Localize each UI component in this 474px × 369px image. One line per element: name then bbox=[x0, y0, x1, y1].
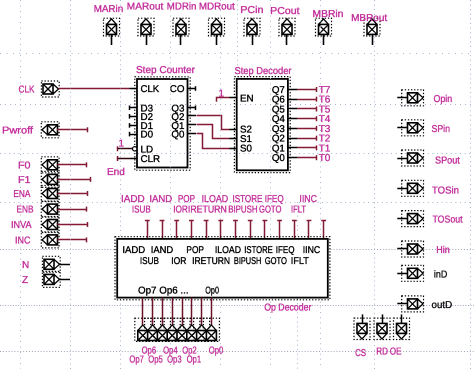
svg-text:Op5: Op5 bbox=[148, 354, 163, 365]
svg-text:ILOAD: ILOAD bbox=[202, 194, 229, 205]
pin CLK (input) bbox=[19, 81, 60, 97]
wire T2 bbox=[288, 134, 331, 145]
svg-text:SPin: SPin bbox=[432, 124, 451, 135]
svg-text:ISTORE: ISTORE bbox=[244, 245, 273, 256]
chip body Step Decoder bbox=[234, 77, 290, 173]
wire MBRout stub bbox=[372, 35, 374, 45]
page grid vertical x=220.5 bbox=[220, 0, 222, 369]
page grid vertical x=470.5 bbox=[470, 0, 472, 369]
svg-text:CS: CS bbox=[355, 348, 366, 359]
svg-text:IFLT: IFLT bbox=[291, 256, 309, 267]
svg-text:CLR: CLR bbox=[141, 154, 161, 165]
page grid horizontal y=351.5 bbox=[0, 351, 474, 353]
svg-text:Op7: Op7 bbox=[129, 354, 144, 365]
8 output wires below Op Decoder bbox=[143, 298, 212, 325]
wire INVA bbox=[58, 222, 88, 227]
svg-text:S0: S0 bbox=[240, 144, 253, 155]
wire T5 bbox=[288, 105, 331, 116]
pin INVA (output) bbox=[11, 217, 59, 233]
page grid vertical x=120.5 bbox=[120, 0, 122, 369]
pin MDRin bbox=[167, 2, 197, 45]
svg-text:CLK: CLK bbox=[141, 84, 160, 95]
pin Opin bbox=[397, 90, 452, 106]
13 input stub wires on top of Op Decoder bbox=[145, 220, 326, 239]
svg-text:IOR: IOR bbox=[171, 256, 186, 267]
svg-text:CO: CO bbox=[170, 84, 185, 95]
wire MARin stub bbox=[111, 35, 113, 45]
svg-text:ENB: ENB bbox=[17, 205, 34, 216]
svg-text:ISTORE: ISTORE bbox=[233, 194, 263, 205]
svg-text:Op3: Op3 bbox=[167, 354, 182, 365]
pin PCout bbox=[270, 6, 300, 45]
svg-text:IINC: IINC bbox=[303, 245, 321, 256]
wire INC bbox=[58, 237, 87, 242]
svg-text:1: 1 bbox=[119, 138, 125, 149]
svg-text:Z: Z bbox=[22, 275, 28, 286]
page grid vertical x=70.5 bbox=[70, 0, 72, 369]
svg-text:Op1: Op1 bbox=[187, 354, 202, 365]
pin ENB (output) bbox=[17, 201, 60, 217]
pin stubs D3 D2 D1 D0 with end ticks bbox=[130, 106, 138, 137]
svg-text:IADD: IADD bbox=[121, 194, 145, 205]
page grid horizontal y=53.5 bbox=[0, 53, 474, 55]
svg-text:Step Decoder: Step Decoder bbox=[235, 66, 293, 77]
pin stub Q3 with tick bbox=[188, 106, 196, 111]
svg-text:Op0: Op0 bbox=[205, 286, 219, 297]
wire MBRin stub bbox=[323, 35, 325, 45]
svg-text:Q0: Q0 bbox=[272, 153, 286, 164]
svg-text:inD: inD bbox=[434, 269, 447, 280]
wire T1 bbox=[288, 143, 331, 154]
wire PCout stub bbox=[286, 35, 288, 45]
pin MARin bbox=[94, 4, 124, 45]
wire F1 bbox=[58, 177, 91, 182]
page grid vertical x=320.5 bbox=[320, 0, 322, 369]
wire ENA bbox=[58, 191, 88, 196]
wire MDRout stub bbox=[216, 35, 218, 45]
svg-text:F0: F0 bbox=[18, 160, 31, 171]
page grid vertical x=20.5 bbox=[20, 0, 22, 369]
wire CLK to Step Counter bbox=[59, 88, 130, 90]
pin MDRout bbox=[199, 2, 235, 45]
pin OE bbox=[390, 314, 410, 357]
pin CS bbox=[354, 314, 370, 359]
svg-text:RD: RD bbox=[376, 347, 388, 358]
svg-text:BIPUSH: BIPUSH bbox=[234, 256, 262, 267]
page grid horizontal y=153.5 bbox=[0, 153, 474, 155]
page grid horizontal y=249.5 bbox=[0, 249, 474, 251]
svg-text:MARout: MARout bbox=[127, 2, 164, 13]
svg-text:Pwroff: Pwroff bbox=[2, 125, 33, 136]
page grid horizontal y=104.5 bbox=[0, 104, 474, 106]
wire MDRin stub bbox=[180, 35, 182, 45]
wire MARout stub bbox=[146, 35, 148, 45]
svg-text:IRETURN: IRETURN bbox=[192, 256, 230, 267]
svg-text:N: N bbox=[22, 260, 29, 271]
svg-text:MDRout: MDRout bbox=[199, 2, 235, 13]
chip body Step Counter bbox=[135, 77, 190, 170]
svg-text:IADD: IADD bbox=[122, 245, 145, 256]
wire Q1 to S1 bbox=[188, 124, 197, 126]
svg-text:D0: D0 bbox=[141, 130, 154, 141]
pin SPin bbox=[397, 120, 450, 136]
svg-text:Opin: Opin bbox=[434, 94, 453, 105]
page grid vertical x=374.5 bbox=[374, 0, 376, 369]
pin inD bbox=[397, 265, 447, 281]
svg-text:EN: EN bbox=[240, 93, 254, 104]
svg-text:IAND: IAND bbox=[151, 245, 173, 256]
wire ENB bbox=[58, 207, 87, 212]
wire Pwroff bbox=[57, 127, 88, 132]
pin outD bbox=[397, 296, 452, 312]
pin F1 (output) bbox=[18, 171, 59, 187]
svg-text:IINC: IINC bbox=[299, 194, 317, 205]
svg-text:IAND: IAND bbox=[149, 194, 172, 205]
svg-text:GOTO: GOTO bbox=[265, 256, 288, 267]
page grid horizontal y=202.5 bbox=[0, 202, 474, 204]
svg-text:BIPUSH: BIPUSH bbox=[228, 205, 257, 216]
svg-text:MBRout: MBRout bbox=[351, 13, 387, 24]
svg-text:ILOAD: ILOAD bbox=[215, 245, 241, 256]
svg-text:Op7 Op6 ...: Op7 Op6 ... bbox=[138, 286, 189, 297]
label row above decoder (lower) bbox=[132, 205, 306, 216]
svg-text:GOTO: GOTO bbox=[259, 205, 282, 216]
svg-text:Op Decoder: Op Decoder bbox=[264, 303, 312, 314]
pin Pwroff (output) bbox=[2, 122, 59, 138]
pin MBRin bbox=[313, 9, 344, 45]
chip body Op Decoder bbox=[115, 237, 330, 300]
wire Q2 to S2 bbox=[188, 115, 197, 117]
svg-text:Q0: Q0 bbox=[171, 130, 185, 141]
pin MARout bbox=[127, 2, 164, 45]
svg-text:IFEQ: IFEQ bbox=[276, 245, 295, 256]
selection boundary x=297 bbox=[297, 202, 299, 369]
svg-text:ISUB: ISUB bbox=[132, 205, 151, 216]
svg-text:POP: POP bbox=[186, 245, 204, 256]
pin PCin bbox=[240, 5, 263, 45]
svg-text:SPout: SPout bbox=[435, 156, 460, 167]
svg-text:Step Counter: Step Counter bbox=[136, 65, 196, 76]
svg-text:F1: F1 bbox=[18, 175, 31, 186]
svg-text:INVA: INVA bbox=[11, 220, 32, 231]
svg-text:IRETURN: IRETURN bbox=[188, 205, 227, 216]
svg-text:MDRin: MDRin bbox=[167, 2, 197, 13]
svg-text:IFEQ: IFEQ bbox=[265, 194, 284, 205]
svg-text:OE: OE bbox=[390, 347, 402, 358]
page grid vertical x=170.5 bbox=[170, 0, 172, 369]
wire T7 bbox=[288, 85, 331, 96]
svg-text:IOR: IOR bbox=[173, 205, 188, 216]
pin RD bbox=[374, 314, 390, 357]
pin MBRout bbox=[351, 13, 387, 45]
pin F0 (output) bbox=[18, 157, 59, 173]
svg-text:MARin: MARin bbox=[94, 4, 124, 15]
pin Op7..Op0 row bbox=[135, 318, 220, 341]
svg-text:IFLT: IFLT bbox=[291, 205, 306, 216]
page grid horizontal y=305.5 bbox=[0, 305, 474, 307]
page grid vertical x=270.5 bbox=[270, 0, 272, 369]
svg-text:PCout: PCout bbox=[270, 6, 300, 17]
pin TOSin bbox=[397, 180, 459, 196]
svg-text:End: End bbox=[107, 167, 125, 178]
wire F0 bbox=[58, 162, 87, 167]
label row above decoder (upper) bbox=[121, 194, 317, 205]
svg-text:outD: outD bbox=[432, 300, 453, 311]
pin ENA (output) bbox=[13, 186, 59, 202]
svg-text:PCin: PCin bbox=[240, 5, 263, 16]
selection boundary x=237 bbox=[237, 0, 239, 78]
wire PCin stub bbox=[252, 35, 254, 45]
pin SPout bbox=[397, 150, 460, 167]
wire T3 bbox=[288, 124, 331, 135]
pin Hin bbox=[397, 241, 450, 257]
svg-text:POP: POP bbox=[178, 194, 195, 205]
wire T6 bbox=[288, 95, 331, 106]
svg-text:ENA: ENA bbox=[13, 189, 30, 200]
svg-text:Hin: Hin bbox=[436, 245, 450, 256]
wire T4 bbox=[288, 114, 331, 125]
wire T0 bbox=[288, 153, 331, 164]
svg-text:INC: INC bbox=[15, 235, 31, 246]
pin Z (input) bbox=[22, 271, 60, 287]
svg-text:ISUB: ISUB bbox=[140, 256, 159, 267]
svg-text:MBRin: MBRin bbox=[313, 9, 344, 20]
svg-text:Op0: Op0 bbox=[209, 345, 224, 356]
svg-text:TOSout: TOSout bbox=[433, 215, 463, 226]
wire Z bbox=[60, 279, 71, 281]
inverter bubble at LD bbox=[133, 147, 137, 151]
svg-text:TOSin: TOSin bbox=[432, 185, 459, 196]
wire N bbox=[60, 264, 71, 266]
svg-text:T0: T0 bbox=[319, 153, 331, 164]
pin stub CO with tick bbox=[188, 86, 196, 91]
pin N (input) bbox=[22, 256, 60, 272]
pin INC (output) bbox=[15, 232, 59, 248]
pin TOSout bbox=[397, 211, 462, 227]
wire Q0 to S0 bbox=[188, 133, 197, 135]
